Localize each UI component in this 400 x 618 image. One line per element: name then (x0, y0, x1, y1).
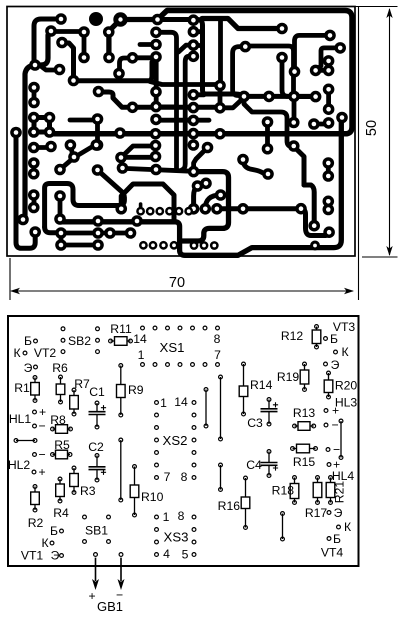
wire link c (340, 421, 342, 458)
wire link a (205, 390, 207, 427)
wire long x176 (156, 32, 177, 169)
wire stub y44 (140, 42, 156, 47)
pad (150, 51, 162, 63)
wire y108 to pad244 (220, 98, 244, 108)
pad (150, 27, 162, 39)
pad (68, 75, 80, 87)
pad (289, 66, 301, 78)
pad (92, 239, 104, 251)
wire bar x97 (95, 119, 100, 145)
wire y35 elbow (295, 35, 331, 71)
pad (262, 116, 274, 128)
pad (115, 152, 127, 164)
pad (188, 139, 200, 151)
svg-text:SB2: SB2 (68, 334, 91, 348)
pad (263, 91, 275, 103)
svg-text:R11: R11 (110, 322, 132, 336)
pad (45, 25, 57, 37)
pad (55, 13, 67, 25)
pad (92, 164, 104, 176)
pad (29, 226, 41, 238)
svg-text:SB1: SB1 (85, 524, 108, 538)
wire long y81 (74, 58, 157, 81)
pad (44, 112, 56, 124)
pad (150, 164, 162, 176)
pad (78, 26, 90, 38)
pad (117, 162, 129, 174)
wire link e (282, 514, 284, 540)
pad (54, 213, 66, 225)
wire stub y45 (193, 43, 202, 48)
pad (190, 241, 199, 250)
pad (188, 89, 200, 101)
pad (103, 52, 115, 64)
pad (200, 178, 212, 190)
wire elbow 282 (282, 58, 288, 97)
pad (238, 91, 250, 103)
pad (150, 140, 162, 152)
svg-text:R12: R12 (281, 329, 304, 343)
svg-text:R18: R18 (272, 484, 295, 498)
wire x314 (304, 185, 314, 226)
pad (184, 207, 193, 216)
resistor R8 (53, 428, 56, 430)
svg-text:+: + (333, 458, 340, 472)
wire bigpad diag down (109, 20, 121, 58)
pad (323, 103, 335, 115)
pad (146, 207, 155, 216)
pad (28, 97, 40, 109)
wire trunk y17 jog (202, 19, 277, 29)
pad (323, 170, 335, 182)
svg-text:1: 1 (163, 510, 170, 524)
pad (214, 128, 226, 140)
svg-text:4: 4 (163, 547, 170, 561)
wire y147 (34, 145, 51, 150)
svg-text:Б: Б (50, 524, 58, 538)
wire left trunk x24 (25, 32, 51, 218)
svg-text:R10: R10 (141, 490, 164, 504)
dimension extension line bottom-left (9, 258, 11, 300)
svg-text:XS1: XS1 (160, 340, 185, 355)
svg-text:R19: R19 (277, 370, 300, 384)
svg-text:R16: R16 (218, 499, 241, 513)
wire bottom y233 (60, 231, 130, 236)
pad (334, 42, 346, 54)
pad (91, 139, 103, 151)
pad (262, 168, 274, 180)
pad (210, 241, 219, 250)
pad (55, 227, 67, 239)
svg-text:+: + (88, 589, 95, 603)
svg-text:7: 7 (214, 348, 221, 362)
pad (93, 86, 105, 98)
wire pair x60 (58, 196, 63, 219)
wire H cluster (34, 118, 50, 133)
svg-text:R5: R5 (54, 438, 70, 452)
svg-text:R8: R8 (50, 413, 66, 427)
svg-text:70: 70 (169, 275, 185, 291)
pad (54, 164, 66, 176)
resistor R10 (134, 467, 136, 486)
wire pair x328a (326, 61, 331, 71)
resistor R14 (243, 364, 245, 386)
wire pair x328b (326, 89, 331, 109)
pad (92, 227, 104, 239)
wire x84 (82, 32, 87, 58)
pad (188, 115, 200, 127)
svg-text:Б: Б (333, 532, 341, 546)
svg-text:C4: C4 (246, 458, 262, 472)
pad (215, 189, 227, 201)
pad (276, 23, 288, 35)
resistor R4 (59, 479, 61, 484)
resistor R16 (245, 478, 247, 497)
svg-text:+: + (332, 404, 339, 418)
pad (56, 37, 68, 49)
svg-text:C1: C1 (89, 385, 105, 399)
svg-text:Э: Э (24, 361, 33, 375)
pad (89, 12, 103, 26)
svg-text:−: − (38, 419, 45, 433)
wire link R9R10 (120, 440, 122, 500)
svg-text:8: 8 (181, 470, 188, 484)
svg-text:50: 50 (364, 120, 380, 136)
wire pad6244 diag (62, 43, 74, 80)
svg-text:5: 5 (182, 548, 189, 562)
pad (200, 203, 212, 215)
wire elbow staircase (45, 184, 119, 228)
wire x294 chain (249, 46, 294, 96)
pad (188, 203, 200, 215)
wire box arc2 (205, 195, 220, 209)
wire row y31 (51, 29, 84, 34)
pad (28, 157, 40, 169)
svg-text:7: 7 (164, 470, 171, 484)
capacitor C2 (96, 456, 98, 467)
svg-text:К: К (344, 520, 352, 534)
wire pair x34a (32, 88, 37, 103)
wire diag 60169 (60, 158, 74, 170)
wire pair y123 (314, 122, 329, 127)
resistor R6 (60, 377, 62, 384)
resistor R18 (294, 478, 296, 484)
wire x232 branch (233, 47, 246, 96)
pad (28, 112, 40, 124)
svg-text:R20: R20 (335, 379, 358, 393)
wire zig x121-174 (121, 184, 174, 222)
pad (308, 220, 320, 232)
pad (17, 214, 29, 226)
pad (28, 82, 40, 94)
pad (54, 190, 66, 202)
resistor R20 (328, 373, 330, 380)
wire box C path (181, 172, 229, 241)
pad (323, 196, 335, 208)
svg-text:R1: R1 (14, 381, 30, 395)
pad (150, 128, 162, 140)
connector XS1 (141, 326, 145, 330)
wire left x15 U (16, 133, 35, 249)
svg-text:Э: Э (331, 358, 340, 372)
pad (188, 166, 200, 178)
pad (78, 52, 90, 64)
pad (44, 126, 56, 138)
wire pad1 to pad2 trunk (34, 19, 61, 65)
pad (310, 241, 320, 251)
svg-text:К: К (13, 346, 21, 360)
svg-text:R14: R14 (250, 378, 273, 392)
wire link d (220, 465, 222, 490)
connector XS2 (155, 401, 159, 405)
wire y168 sloped (123, 168, 194, 171)
svg-text:К: К (341, 345, 349, 359)
capacitor C3 (268, 400, 270, 409)
button SB1 (83, 515, 87, 519)
svg-text:Э: Э (51, 549, 60, 563)
svg-text:HL2: HL2 (8, 458, 31, 472)
wire down right 305 (301, 209, 329, 236)
wire y48 elbow (316, 48, 341, 71)
pad (104, 227, 116, 239)
pad (323, 84, 335, 96)
transistor VT4 (327, 511, 331, 515)
pad (115, 203, 127, 215)
resistor R11 (111, 340, 115, 342)
wire x220 down (218, 19, 223, 81)
resistor R7 (73, 390, 75, 396)
svg-text:−: − (333, 443, 340, 457)
PCB board outline (top copper view) (7, 7, 355, 257)
wire link b (220, 377, 222, 439)
pad (10, 127, 22, 139)
pad (149, 241, 158, 250)
pad (150, 114, 162, 126)
svg-text:14: 14 (133, 332, 147, 346)
pad (188, 128, 200, 140)
resistor R9 (120, 366, 122, 385)
wire bar 7073 (70, 146, 73, 158)
pad (188, 26, 200, 38)
pad (28, 189, 40, 201)
svg-text:1: 1 (138, 348, 145, 362)
pad (192, 180, 204, 192)
svg-text:R15: R15 (293, 455, 316, 469)
pad (29, 59, 41, 71)
svg-text:−: − (331, 418, 338, 432)
pad (276, 52, 288, 64)
pad (103, 26, 115, 38)
wire bottom trunk + V2 (60, 118, 341, 256)
pad (136, 207, 145, 216)
pad (288, 117, 300, 129)
wire y84 cont (150, 82, 218, 85)
pad (211, 203, 223, 215)
pad (310, 65, 322, 77)
wire stub y31 (193, 29, 202, 34)
resistor R1 (34, 378, 36, 383)
svg-text:14: 14 (174, 395, 188, 409)
pad (323, 65, 335, 77)
svg-text:HL1: HL1 (9, 412, 32, 426)
resistor R5 (53, 454, 56, 456)
capacitor C1 (96, 403, 98, 412)
pad (288, 140, 300, 152)
resistor R2 (34, 487, 36, 493)
svg-text:R3: R3 (80, 484, 96, 498)
pad (68, 151, 80, 163)
svg-text:XS3: XS3 (164, 530, 189, 545)
svg-text:8: 8 (178, 509, 185, 523)
svg-text:GB1: GB1 (97, 599, 123, 614)
wire y209 long (217, 206, 301, 211)
wire y96 row (244, 94, 316, 99)
pad (155, 207, 164, 216)
svg-text:8: 8 (214, 332, 221, 346)
wire bar x220 (218, 86, 223, 108)
wire bar y70 (316, 68, 329, 73)
wire y120 row (156, 118, 209, 123)
battery GB1 arrows (94, 553, 98, 557)
pad (125, 227, 137, 239)
svg-text:C2: C2 (88, 440, 104, 454)
pad (240, 41, 252, 53)
pad (324, 30, 336, 42)
svg-text:R6: R6 (52, 361, 68, 375)
wire stub first smallpad (139, 204, 143, 210)
wire diag 7396 (73, 147, 92, 159)
resistor R12 (316, 327, 318, 331)
pad (323, 157, 335, 169)
pad (150, 86, 162, 98)
capacitor C4 (268, 452, 270, 463)
wire pair x328d (326, 201, 331, 209)
wire x185 (182, 56, 193, 170)
svg-text:VT4: VT4 (321, 546, 344, 560)
svg-text:C3: C3 (247, 416, 263, 430)
pad (150, 39, 162, 51)
pad (262, 143, 274, 155)
svg-text:XS2: XS2 (163, 433, 188, 448)
resistor R3 (73, 468, 75, 474)
wire diag to x176 (179, 45, 194, 52)
wire link f (16, 440, 35, 442)
svg-text:VT2: VT2 (34, 346, 57, 360)
pad (54, 64, 66, 76)
pad (237, 203, 249, 215)
pad (55, 239, 67, 251)
pad (28, 126, 40, 138)
resistor R19 (304, 364, 306, 370)
wire x202 trunk (158, 20, 243, 97)
pad (113, 68, 125, 80)
wire bottom y245 (61, 243, 98, 248)
svg-text:+: + (39, 405, 46, 419)
pad (152, 14, 164, 26)
wire y157 (121, 155, 156, 160)
wire bigpads row (121, 17, 158, 22)
svg-text:R17: R17 (305, 506, 328, 520)
button SB2 (61, 327, 65, 331)
svg-text:VT1: VT1 (21, 549, 44, 563)
wire stub y94 (193, 92, 204, 97)
wire y111 path (244, 96, 294, 146)
pad (188, 51, 200, 63)
svg-text:R13: R13 (293, 406, 316, 420)
dimension line 50 vertical (389, 9, 391, 255)
pad (323, 204, 335, 216)
wire diag y146 (121, 146, 151, 158)
svg-text:+: + (38, 465, 45, 479)
resistor (330, 478, 332, 483)
pad (188, 39, 200, 51)
pad (188, 102, 200, 114)
wire pair x34b (32, 195, 37, 208)
wire top inner trunk + y133 trunk (50, 11, 353, 134)
pad (28, 168, 40, 180)
pad (127, 102, 139, 114)
pad (170, 241, 179, 250)
wire diag 294 down (294, 147, 304, 186)
wire y206 diag (98, 170, 125, 206)
pad (310, 91, 322, 103)
dimension line 70 horizontal (11, 290, 353, 292)
pad (92, 139, 104, 151)
pad (150, 151, 162, 163)
pad (336, 112, 348, 124)
connector XS3 (155, 515, 159, 519)
pad (92, 215, 104, 227)
pad (65, 139, 77, 151)
pad (131, 215, 143, 227)
wire bar x267 (265, 122, 270, 149)
pad (323, 55, 335, 67)
wire y96 (296, 94, 316, 99)
pad (114, 127, 126, 139)
resistor R13 (295, 425, 299, 427)
pad (323, 117, 335, 129)
wire box arc1 (194, 183, 206, 209)
wire elbow to pad61233 (45, 227, 61, 233)
pad (214, 80, 226, 92)
svg-text:−: − (38, 448, 45, 462)
wire y108 long (99, 92, 221, 107)
pad (150, 101, 162, 113)
wire bar 294 (292, 96, 297, 122)
pad (175, 207, 184, 216)
pad (28, 142, 40, 154)
svg-text:R9: R9 (128, 383, 144, 397)
wire stub y106 (156, 105, 176, 110)
wire y120 (70, 118, 98, 123)
svg-text:R7: R7 (74, 377, 90, 391)
pad (323, 226, 335, 238)
pad (92, 113, 104, 125)
svg-text:R21: R21 (333, 481, 347, 504)
wire pair x328c (326, 163, 331, 176)
resistor R15 (293, 448, 297, 450)
pad (295, 203, 307, 215)
pad (45, 141, 57, 153)
wire elbow to 119 (120, 58, 134, 74)
wire stub pad5971 (42, 67, 60, 70)
pad (165, 207, 174, 216)
wire bar x61 (59, 233, 64, 245)
pad (202, 142, 214, 154)
component board outline (8, 316, 359, 566)
pad (127, 52, 139, 64)
pad (113, 12, 127, 26)
